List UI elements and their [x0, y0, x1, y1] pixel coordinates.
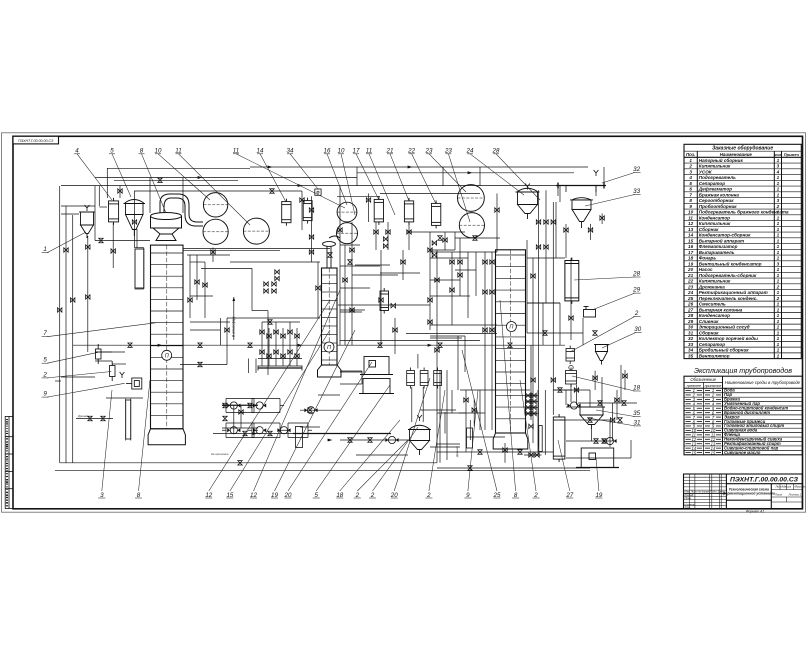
svg-text:10: 10: [338, 148, 345, 155]
svg-text:21: 21: [386, 148, 394, 155]
svg-text:1: 1: [777, 210, 780, 215]
svg-text:1: 1: [777, 279, 780, 284]
filter 25b: [420, 368, 428, 389]
svg-text:35: 35: [633, 410, 640, 417]
level glass d: [539, 426, 542, 452]
svg-text:Бражная колонна: Бражная колонна: [699, 192, 740, 197]
svg-text:15: 15: [691, 450, 696, 455]
svg-text:20: 20: [284, 492, 292, 499]
svg-text:1: 1: [43, 246, 46, 253]
apparatus 10b drum: [337, 223, 358, 244]
svg-text:Сепаратор: Сепаратор: [699, 181, 725, 186]
collector 29: [584, 307, 596, 318]
svg-text:Выпариватель: Выпариватель: [699, 250, 735, 255]
svg-text:1: 1: [777, 238, 780, 243]
apparatus 10 drum: [203, 193, 227, 217]
svg-text:16: 16: [688, 244, 694, 249]
svg-text:28: 28: [632, 271, 640, 278]
svg-text:1: 1: [777, 181, 780, 186]
svg-text:1: 1: [777, 158, 780, 163]
svg-text:2: 2: [776, 296, 780, 301]
svg-text:Выпарной аппарат: Выпарной аппарат: [699, 237, 744, 243]
svg-text:2: 2: [776, 204, 780, 209]
svg-text:1: 1: [777, 319, 780, 324]
svg-text:Лист: Лист: [774, 493, 783, 497]
svg-text:2: 2: [426, 492, 431, 499]
pipework network: [55, 167, 631, 471]
svg-text:15: 15: [226, 492, 233, 499]
svg-text:7: 7: [689, 192, 692, 197]
pump bypass loops: [222, 399, 312, 438]
svg-text:Переключатель конденс.: Переключатель конденс.: [699, 296, 758, 301]
svg-text:П: П: [165, 353, 169, 359]
svg-text:2: 2: [776, 284, 780, 289]
heat exchanger 22: [432, 200, 441, 228]
sampler 9: [126, 378, 142, 389]
svg-text:2: 2: [688, 164, 692, 169]
kettle 12: [135, 249, 144, 288]
svg-text:1: 1: [777, 342, 780, 347]
svg-text:32: 32: [633, 166, 640, 173]
svg-text:Бродильный сборник: Бродильный сборник: [699, 347, 749, 353]
svg-text:9: 9: [466, 492, 470, 499]
heat exchanger 4: [109, 198, 119, 225]
svg-text:П: П: [327, 345, 331, 351]
svg-text:18: 18: [633, 385, 640, 392]
svg-text:34: 34: [688, 348, 694, 353]
svg-text:Конденсатор: Конденсатор: [699, 215, 730, 220]
svg-text:1: 1: [777, 227, 780, 232]
svg-text:Наименование: Наименование: [720, 152, 753, 157]
svg-text:5: 5: [110, 148, 114, 155]
svg-text:Кипятильник: Кипятильник: [699, 279, 731, 284]
svg-text:9: 9: [43, 391, 47, 398]
svg-text:1: 1: [777, 353, 780, 358]
svg-text:2: 2: [634, 310, 639, 317]
top-left stamp box: [13, 136, 59, 144]
svg-text:24: 24: [687, 290, 694, 295]
svg-text:12: 12: [250, 492, 257, 499]
svg-text:1: 1: [777, 267, 780, 272]
column 15 base: [318, 365, 342, 377]
svg-text:Подогреватель-сборник: Подогреватель-сборник: [699, 272, 757, 278]
svg-text:Обозначение: Обозначение: [690, 377, 716, 382]
svg-text:22: 22: [687, 279, 694, 284]
heat exchanger 14: [282, 199, 291, 226]
svg-text:5: 5: [314, 492, 318, 499]
svg-text:На орошение: На орошение: [211, 452, 229, 456]
svg-text:14: 14: [257, 148, 264, 155]
svg-text:13: 13: [688, 227, 694, 232]
drum 23 upper: [458, 185, 485, 212]
heat exchanger 20: [380, 288, 389, 314]
hot water collector 32: [556, 183, 606, 193]
manifold 2 (bottom right): [293, 433, 391, 435]
svg-text:Дренаж: Дренаж: [455, 445, 459, 458]
svg-text:2: 2: [355, 492, 360, 499]
svg-text:19: 19: [595, 492, 602, 499]
svg-text:В атмосферу: В атмосферу: [232, 316, 236, 337]
pumps: [227, 402, 616, 445]
svg-text:ПЭХНТ.Г.00.00.00.СЗ: ПЭХНТ.Г.00.00.00.СЗ: [18, 139, 54, 143]
svg-text:Смеситель: Смеситель: [699, 302, 726, 307]
svg-text:5: 5: [689, 181, 692, 186]
svg-text:4: 4: [688, 175, 692, 180]
svg-text:30: 30: [634, 326, 641, 333]
svg-text:10: 10: [155, 148, 162, 155]
svg-text:УСОК: УСОК: [699, 169, 713, 174]
svg-text:29: 29: [632, 287, 640, 294]
distribution manifold: [258, 366, 302, 371]
svg-text:1: 1: [777, 307, 780, 312]
svg-text:1: 1: [777, 348, 780, 353]
svg-text:8: 8: [140, 148, 144, 155]
svg-text:3: 3: [689, 169, 692, 174]
svg-text:Пров.: Пров.: [685, 496, 692, 500]
callout numbers: [42, 148, 641, 500]
svg-text:19: 19: [688, 261, 694, 266]
svg-text:1: 1: [777, 233, 780, 238]
svg-text:Подогреватель бражного конденс: Подогреватель бражного конденсата: [699, 209, 789, 215]
heat exchanger 34: [303, 198, 312, 224]
vessel 1 pressure collector: [79, 212, 95, 238]
svg-text:1: 1: [777, 336, 780, 341]
svg-text:Фонарь: Фонарь: [699, 256, 717, 261]
column 7 head separator: [151, 213, 182, 241]
svg-text:31: 31: [688, 330, 694, 335]
svg-text:Заказные оборудование: Заказные оборудование: [712, 145, 773, 152]
apparatus 13a: [360, 357, 393, 375]
level glass b: [467, 428, 473, 448]
svg-text:принятое: принятое: [705, 384, 722, 388]
svg-text:Напорный сборник: Напорный сборник: [699, 157, 744, 163]
filter 25c: [434, 368, 442, 389]
svg-text:1: 1: [689, 158, 692, 163]
svg-text:Кипятильник: Кипятильник: [699, 221, 731, 226]
svg-text:32: 32: [688, 336, 694, 341]
callout leaders: [42, 154, 642, 498]
epuration vessel 30: [594, 345, 609, 365]
svg-text:18: 18: [688, 256, 694, 261]
svg-text:Подогреватель: Подогреватель: [699, 175, 736, 180]
lantern 18: [566, 368, 577, 388]
svg-text:1: 1: [777, 215, 780, 220]
level glass c: [296, 427, 303, 448]
svg-text:8: 8: [689, 198, 692, 203]
svg-text:1: 1: [777, 290, 780, 295]
svg-text:Пробоотборник: Пробоотборник: [699, 203, 737, 209]
svg-text:35: 35: [688, 353, 694, 358]
svg-text:Утв.: Утв.: [685, 505, 691, 509]
svg-text:1: 1: [777, 187, 780, 192]
apparatus 13b: [359, 379, 394, 394]
svg-text:10: 10: [688, 210, 694, 215]
svg-text:Поз.: Поз.: [686, 152, 695, 157]
svg-text:1: 1: [777, 325, 780, 330]
apparatus 11 drum b: [243, 218, 269, 244]
svg-text:1: 1: [777, 256, 780, 261]
vessel 24: [516, 188, 540, 219]
svg-text:15: 15: [711, 450, 716, 455]
svg-text:2: 2: [370, 492, 375, 499]
svg-text:Формат А1: Формат А1: [746, 509, 765, 513]
svg-text:1: 1: [777, 244, 780, 249]
svg-text:Флегматизатор: Флегматизатор: [699, 244, 738, 249]
svg-text:29: 29: [687, 319, 694, 324]
svg-text:Конденсатор: Конденсатор: [699, 313, 730, 318]
cyclone separator 5: [124, 200, 146, 237]
drum 23 lower: [459, 213, 484, 238]
svg-text:34: 34: [287, 148, 294, 155]
svg-text:Сепаратор: Сепаратор: [699, 342, 725, 347]
column 27: [553, 414, 565, 462]
svg-text:Масшт.: Масшт.: [795, 485, 807, 489]
flow arrows: [158, 166, 473, 442]
svg-text:Изм. Лист № докум. Подп. Дат: Изм. Лист № докум. Подп. Дата: [685, 490, 726, 494]
svg-text:Листов 1: Листов 1: [788, 493, 802, 497]
svg-text:3: 3: [777, 198, 780, 203]
svg-text:Дефлегматор: Дефлегматор: [698, 186, 732, 192]
title block: [684, 474, 803, 509]
svg-text:14: 14: [688, 233, 694, 238]
equipment list table: [684, 144, 801, 358]
svg-text:8: 8: [137, 492, 141, 499]
svg-text:Насос: Насос: [699, 267, 713, 272]
condenser 28: [565, 258, 579, 304]
svg-text:23: 23: [444, 148, 452, 155]
svg-text:20: 20: [687, 267, 694, 272]
svg-text:2: 2: [42, 371, 47, 378]
collector 31: [578, 407, 605, 429]
svg-text:20: 20: [390, 492, 398, 499]
svg-text:Эпюрационный сосуд: Эпюрационный сосуд: [699, 324, 750, 330]
svg-text:П: П: [509, 325, 513, 331]
vessel 2 (sight glass): [566, 346, 575, 365]
svg-text:Вентилятор: Вентилятор: [699, 353, 730, 358]
svg-text:ПЭХНТ.Г.00.00.00.СЗ: ПЭХНТ.Г.00.00.00.СЗ: [730, 477, 799, 484]
svg-text:33: 33: [633, 188, 640, 195]
separator 33: [570, 198, 593, 228]
pipework infill: [55, 186, 637, 463]
svg-text:30: 30: [688, 325, 694, 330]
drawing frame: [13, 136, 803, 509]
filter unit 5: [96, 344, 102, 364]
svg-text:25: 25: [493, 492, 501, 499]
valves: [58, 178, 628, 470]
svg-text:27: 27: [687, 307, 694, 312]
svg-text:5: 5: [43, 357, 47, 364]
heat exchanger 17: [374, 196, 383, 225]
svg-text:22: 22: [407, 148, 415, 155]
svg-text:Коллектор горячей воды: Коллектор горячей воды: [699, 335, 758, 341]
svg-text:Ректификационный аппарат: Ректификационный аппарат: [699, 289, 768, 295]
svg-text:11: 11: [688, 215, 693, 220]
svg-text:33: 33: [688, 342, 694, 347]
svg-text:кол: кол: [774, 152, 781, 157]
svg-text:12: 12: [688, 221, 694, 226]
apparatus 16 drum: [337, 202, 357, 222]
svg-text:Вентильный конденсатор: Вентильный конденсатор: [699, 260, 762, 266]
svg-text:11: 11: [175, 148, 181, 155]
svg-text:26: 26: [687, 302, 694, 307]
svg-text:Кипятильник: Кипятильник: [699, 164, 731, 169]
svg-text:4: 4: [75, 148, 79, 155]
svg-text:3: 3: [777, 261, 780, 266]
svg-text:Сивушное масло: Сивушное масло: [724, 450, 761, 455]
svg-text:19: 19: [271, 492, 278, 499]
svg-text:1: 1: [777, 175, 780, 180]
svg-text:Наименование среды в трубопров: Наименование среды в трубопроводе: [725, 380, 801, 385]
svg-text:Сборник: Сборник: [699, 226, 719, 232]
column 15 head: [323, 236, 341, 268]
svg-text:28: 28: [687, 313, 694, 318]
svg-text:1: 1: [777, 192, 780, 197]
svg-text:1: 1: [777, 273, 780, 278]
svg-text:Сборник: Сборник: [699, 329, 719, 335]
svg-text:3: 3: [777, 164, 780, 169]
svg-text:25: 25: [687, 296, 694, 301]
ventilation unit 19: [576, 448, 619, 468]
svg-text:31: 31: [634, 419, 641, 426]
collection tank: [408, 425, 431, 455]
svg-text:9: 9: [689, 204, 692, 209]
svg-text:17: 17: [688, 250, 694, 255]
svg-text:1: 1: [777, 302, 780, 307]
svg-text:27: 27: [565, 492, 573, 499]
svg-text:23: 23: [687, 284, 694, 289]
svg-text:18: 18: [336, 492, 343, 499]
svg-text:прежнее: прежнее: [687, 384, 701, 388]
svg-text:Масса: Масса: [782, 485, 791, 489]
svg-text:11: 11: [366, 148, 372, 155]
svg-text:8: 8: [514, 492, 518, 499]
svg-text:23: 23: [425, 148, 433, 155]
svg-text:11: 11: [233, 148, 239, 155]
svg-text:Примеч: Примеч: [784, 152, 800, 157]
svg-text:2: 2: [533, 492, 538, 499]
svg-text:16: 16: [324, 148, 331, 155]
left margin stamp strip: [5, 416, 13, 508]
svg-text:1: 1: [777, 221, 780, 226]
svg-text:12: 12: [205, 492, 212, 499]
filter 25a: [407, 368, 415, 389]
vessel 2 left: [110, 361, 116, 381]
vapour duct: [160, 194, 203, 226]
svg-text:24: 24: [466, 148, 474, 155]
svg-text:1: 1: [777, 330, 780, 335]
heat exchanger 21: [404, 198, 413, 225]
svg-text:Конденсатор-сборник: Конденсатор-сборник: [699, 232, 751, 238]
column 15 (middle): [322, 268, 338, 365]
svg-text:ферментационной установки: ферментационной установки: [723, 492, 776, 496]
svg-text:21: 21: [687, 273, 694, 278]
svg-text:1: 1: [777, 250, 780, 255]
apparatus 11 drum: [203, 219, 228, 244]
svg-text:Экспликация трубопроводов: Экспликация трубопроводов: [694, 366, 792, 375]
svg-text:Выпарная колонна: Выпарная колонна: [699, 307, 743, 312]
svg-text:1: 1: [777, 313, 780, 318]
svg-text:6: 6: [689, 187, 692, 192]
svg-text:3: 3: [100, 492, 104, 499]
level glass a: [126, 400, 131, 439]
sensor box 34: [315, 189, 321, 195]
svg-text:15: 15: [688, 238, 694, 243]
svg-text:Сливник: Сливник: [699, 319, 719, 324]
svg-text:7: 7: [43, 330, 47, 337]
column 7 (brew column): [151, 245, 184, 429]
svg-text:4: 4: [776, 169, 780, 174]
svg-text:Сероотборник: Сероотборник: [699, 197, 734, 203]
svg-text:Дрожжанка: Дрожжанка: [698, 284, 725, 289]
svg-text:28: 28: [492, 148, 500, 155]
paper outer edge: [2, 133, 806, 512]
svg-text:17: 17: [353, 148, 360, 155]
column 24 (rectifier): [496, 250, 526, 433]
